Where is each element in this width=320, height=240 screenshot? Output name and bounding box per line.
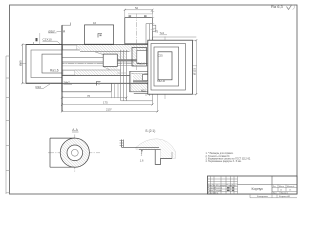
bore thread lines [62, 61, 103, 63]
left grid verticals [211, 176, 238, 194]
steps below right [134, 93, 153, 95]
flange outer [26, 45, 62, 84]
right upper block [132, 48, 147, 67]
Ra marks on port top [129, 15, 132, 17]
svg-text:та2-8: та2-8 [157, 79, 165, 83]
svg-text:Лист: Лист [273, 193, 277, 195]
dark text row [208, 184, 237, 195]
left grid horizontals [208, 179, 238, 192]
roughness symbol top right [271, 4, 294, 10]
body outline [26, 44, 148, 46]
svg-text:Утв.: Утв. [215, 193, 220, 195]
svg-text:Масса: Масса [279, 186, 284, 188]
svg-text:С25: С25 [158, 53, 164, 57]
sheet frame [10, 5, 298, 194]
svg-text:Ø85: Ø85 [19, 60, 23, 66]
svg-text:Листов 1: Листов 1 [281, 193, 288, 195]
top-right port [125, 18, 153, 44]
svg-text:16: 16 [93, 21, 97, 25]
svg-text:Ø115: Ø115 [193, 68, 197, 75]
right part [271, 176, 273, 194]
svg-text:24h7: 24h7 [64, 81, 71, 85]
small dims [141, 150, 143, 154]
svg-text:Формат А1: Формат А1 [279, 195, 291, 198]
top-left port [85, 25, 114, 44]
svg-text:175: 175 [103, 101, 108, 105]
svg-text:Ra1,6: Ra1,6 [138, 62, 146, 66]
svg-text:С2Х10: С2Х10 [43, 37, 53, 41]
below frame strip [250, 197, 297, 199]
left filing margin column [6, 56, 10, 194]
dims below [62, 83, 158, 111]
svg-text:3. Формовочные уклоны по ГОСТ: 3. Формовочные уклоны по ГОСТ 3212-92. [206, 157, 252, 160]
profile [122, 146, 160, 148]
svg-text:215*: 215* [106, 108, 113, 112]
svg-text:Б (2:1): Б (2:1) [146, 129, 156, 133]
dim end ticks [21, 9, 197, 113]
svg-text:Дата: Дата [232, 185, 238, 187]
svg-text:М12: М12 [141, 90, 146, 93]
hatch recesses [63, 45, 77, 50]
centerline main [20, 63, 158, 65]
dim above top port [125, 9, 153, 11]
svg-text:75: 75 [155, 30, 159, 34]
svg-text:Ra1,6: Ra1,6 [50, 69, 59, 73]
white bore box [103, 54, 117, 66]
designation line [238, 184, 298, 186]
svg-text:А-А: А-А [72, 128, 78, 132]
svg-text:12: 12 [280, 190, 282, 192]
svg-text:Корпус: Корпус [252, 187, 264, 191]
svg-text:Ra 6,3: Ra 6,3 [271, 4, 284, 9]
svg-text:1,6: 1,6 [140, 158, 144, 162]
svg-text:76: 76 [87, 94, 91, 98]
svg-text:Копировал: Копировал [257, 196, 269, 198]
svg-text:4. Неуказанные радиусы 3...5 м: 4. Неуказанные радиусы 3...5 мм. [206, 161, 242, 163]
svg-text:Масштаб: Масштаб [287, 186, 294, 188]
right lower block [130, 71, 148, 91]
svg-text:52: 52 [135, 6, 139, 10]
svg-text:Лит.: Лит. [273, 186, 277, 188]
hatch regions [62, 45, 80, 50]
dim top [152, 36, 196, 38]
left dim [21, 45, 23, 84]
groove U [155, 150, 172, 165]
svg-text:1:1: 1:1 [289, 190, 291, 192]
dim right [195, 40, 197, 94]
middle verticals and bore bar [120, 50, 122, 101]
section line A-A [61, 25, 63, 111]
bottom block [62, 91, 111, 93]
dome hatch [136, 139, 176, 159]
